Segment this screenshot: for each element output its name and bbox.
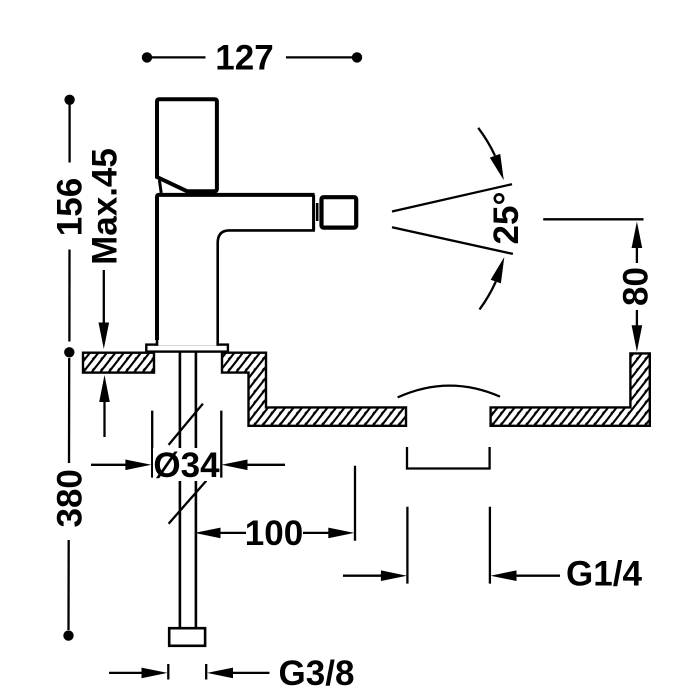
svg-text:Ø34: Ø34 (153, 446, 220, 485)
25-degree upper arc with arrow (478, 128, 504, 180)
dimension 80 right (543, 219, 656, 351)
svg-text:380: 380 (51, 469, 90, 527)
spout aerator block (317, 197, 356, 227)
dimension Max.45 (deck thickness) (85, 148, 124, 437)
shank nut (169, 628, 205, 646)
faucet base flange (146, 345, 228, 352)
faucet body and spout (157, 195, 315, 346)
faucet lever handle (157, 99, 217, 193)
dimension 127 top (142, 39, 362, 78)
svg-text:25°: 25° (487, 192, 526, 245)
supply pipe shank lines (180, 351, 196, 627)
25-degree spray cone lower line (392, 227, 513, 254)
pipe break slash lower (169, 481, 207, 524)
svg-text:156: 156 (51, 178, 90, 236)
dimension 156 / 380 left line (51, 95, 90, 641)
dimension G3/8 (shank thread) (109, 654, 354, 693)
countertop deck left slab (83, 353, 154, 373)
25-degree spray cone upper line (392, 184, 512, 211)
countertop deck right slab with upturn (491, 353, 650, 425)
svg-text:G3/8: G3/8 (279, 654, 355, 693)
svg-text:127: 127 (215, 39, 273, 78)
bidet ceramic rim curve (398, 386, 500, 398)
25-degree lower arc with arrow (480, 257, 505, 310)
countertop deck stepped slab (Z-section) (222, 353, 406, 426)
dimension 100 (195, 466, 356, 554)
svg-text:100: 100 (245, 514, 303, 553)
dimension O34 (hole diameter) (91, 411, 285, 485)
svg-text:80: 80 (617, 267, 656, 306)
svg-text:Max.45: Max.45 (85, 148, 124, 265)
pipe break slash upper (169, 404, 203, 445)
dimension G1/4 (drain) (343, 507, 642, 594)
drain tailpiece U-fitting (407, 447, 490, 469)
svg-text:G1/4: G1/4 (566, 555, 642, 594)
